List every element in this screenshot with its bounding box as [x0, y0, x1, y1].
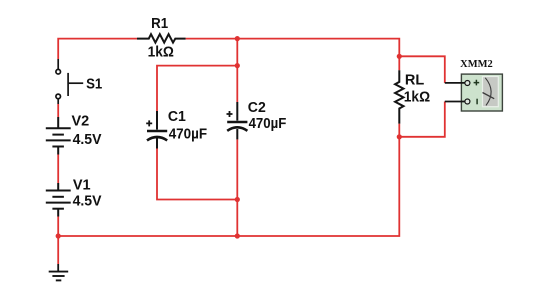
wire bottom bus and right riser to RL bottom	[58, 124, 399, 236]
resistor RL	[395, 70, 403, 123]
node junction C branch / bottom bus	[235, 233, 240, 238]
svg-text:470µF: 470µF	[169, 127, 208, 143]
svg-text:RL: RL	[405, 72, 424, 88]
XMM2 needle	[483, 93, 495, 99]
wire switch to V2	[57, 104, 59, 117]
XMM2 black lead minus	[445, 101, 465, 103]
wire V2 to V1	[57, 155, 59, 184]
wire top bus from R1 to right corner down to RL	[186, 39, 400, 71]
XMM2 display panel	[483, 77, 499, 107]
capacitor C1	[146, 111, 167, 149]
svg-text:C2: C2	[248, 100, 266, 116]
svg-text:1kΩ: 1kΩ	[404, 89, 431, 105]
wire C2 top branch	[236, 66, 238, 102]
XMM2 meter arc	[485, 78, 491, 106]
XMM2 plus terminal	[465, 81, 470, 86]
node junction ground / bottom bus	[56, 233, 61, 238]
XMM2 minus label	[476, 99, 478, 105]
node junction RL bottom / XMM-	[397, 134, 402, 139]
multimeter XMM2 box	[445, 74, 503, 111]
node junction C1/C2 split	[235, 63, 240, 68]
battery V2	[46, 117, 71, 155]
XMM2 plus label	[474, 80, 480, 86]
XMM2 black lead plus	[445, 82, 465, 84]
wire C1 bottom to join	[157, 149, 237, 200]
node junction C1/C2 bottom join	[235, 197, 240, 202]
XMM2 minus terminal	[465, 99, 470, 104]
svg-text:XMM2: XMM2	[460, 59, 493, 70]
capacitor C2	[227, 102, 248, 139]
svg-text:S1: S1	[86, 76, 102, 92]
resistor R1	[137, 34, 186, 42]
node junction RL top / XMM+	[397, 54, 402, 59]
svg-text:V2: V2	[72, 114, 90, 130]
wire ground stem	[57, 236, 59, 264]
ground	[49, 264, 68, 280]
wire XMM2 minus to RL bottom	[399, 102, 445, 137]
svg-text:R1: R1	[151, 16, 168, 32]
node junction top bus / C branch	[235, 36, 240, 41]
svg-text:470µF: 470µF	[249, 116, 287, 132]
wire RL top to XMM2 plus	[399, 56, 445, 83]
svg-text:C1: C1	[168, 109, 186, 125]
wire V1 to bottom bus	[57, 217, 59, 237]
battery V1	[46, 183, 71, 217]
svg-text:4.5V: 4.5V	[73, 132, 102, 148]
switch S1	[56, 59, 83, 104]
wire C1 top branch	[157, 66, 237, 111]
wire C2 bottom down to bottom bus	[236, 139, 238, 236]
svg-text:1kΩ: 1kΩ	[148, 44, 175, 60]
wire top-left: left rail up to top bus toward R1	[58, 39, 137, 59]
wire C-branch stem from top bus	[236, 39, 238, 66]
svg-text:4.5V: 4.5V	[73, 194, 102, 210]
svg-text:V1: V1	[73, 178, 91, 194]
